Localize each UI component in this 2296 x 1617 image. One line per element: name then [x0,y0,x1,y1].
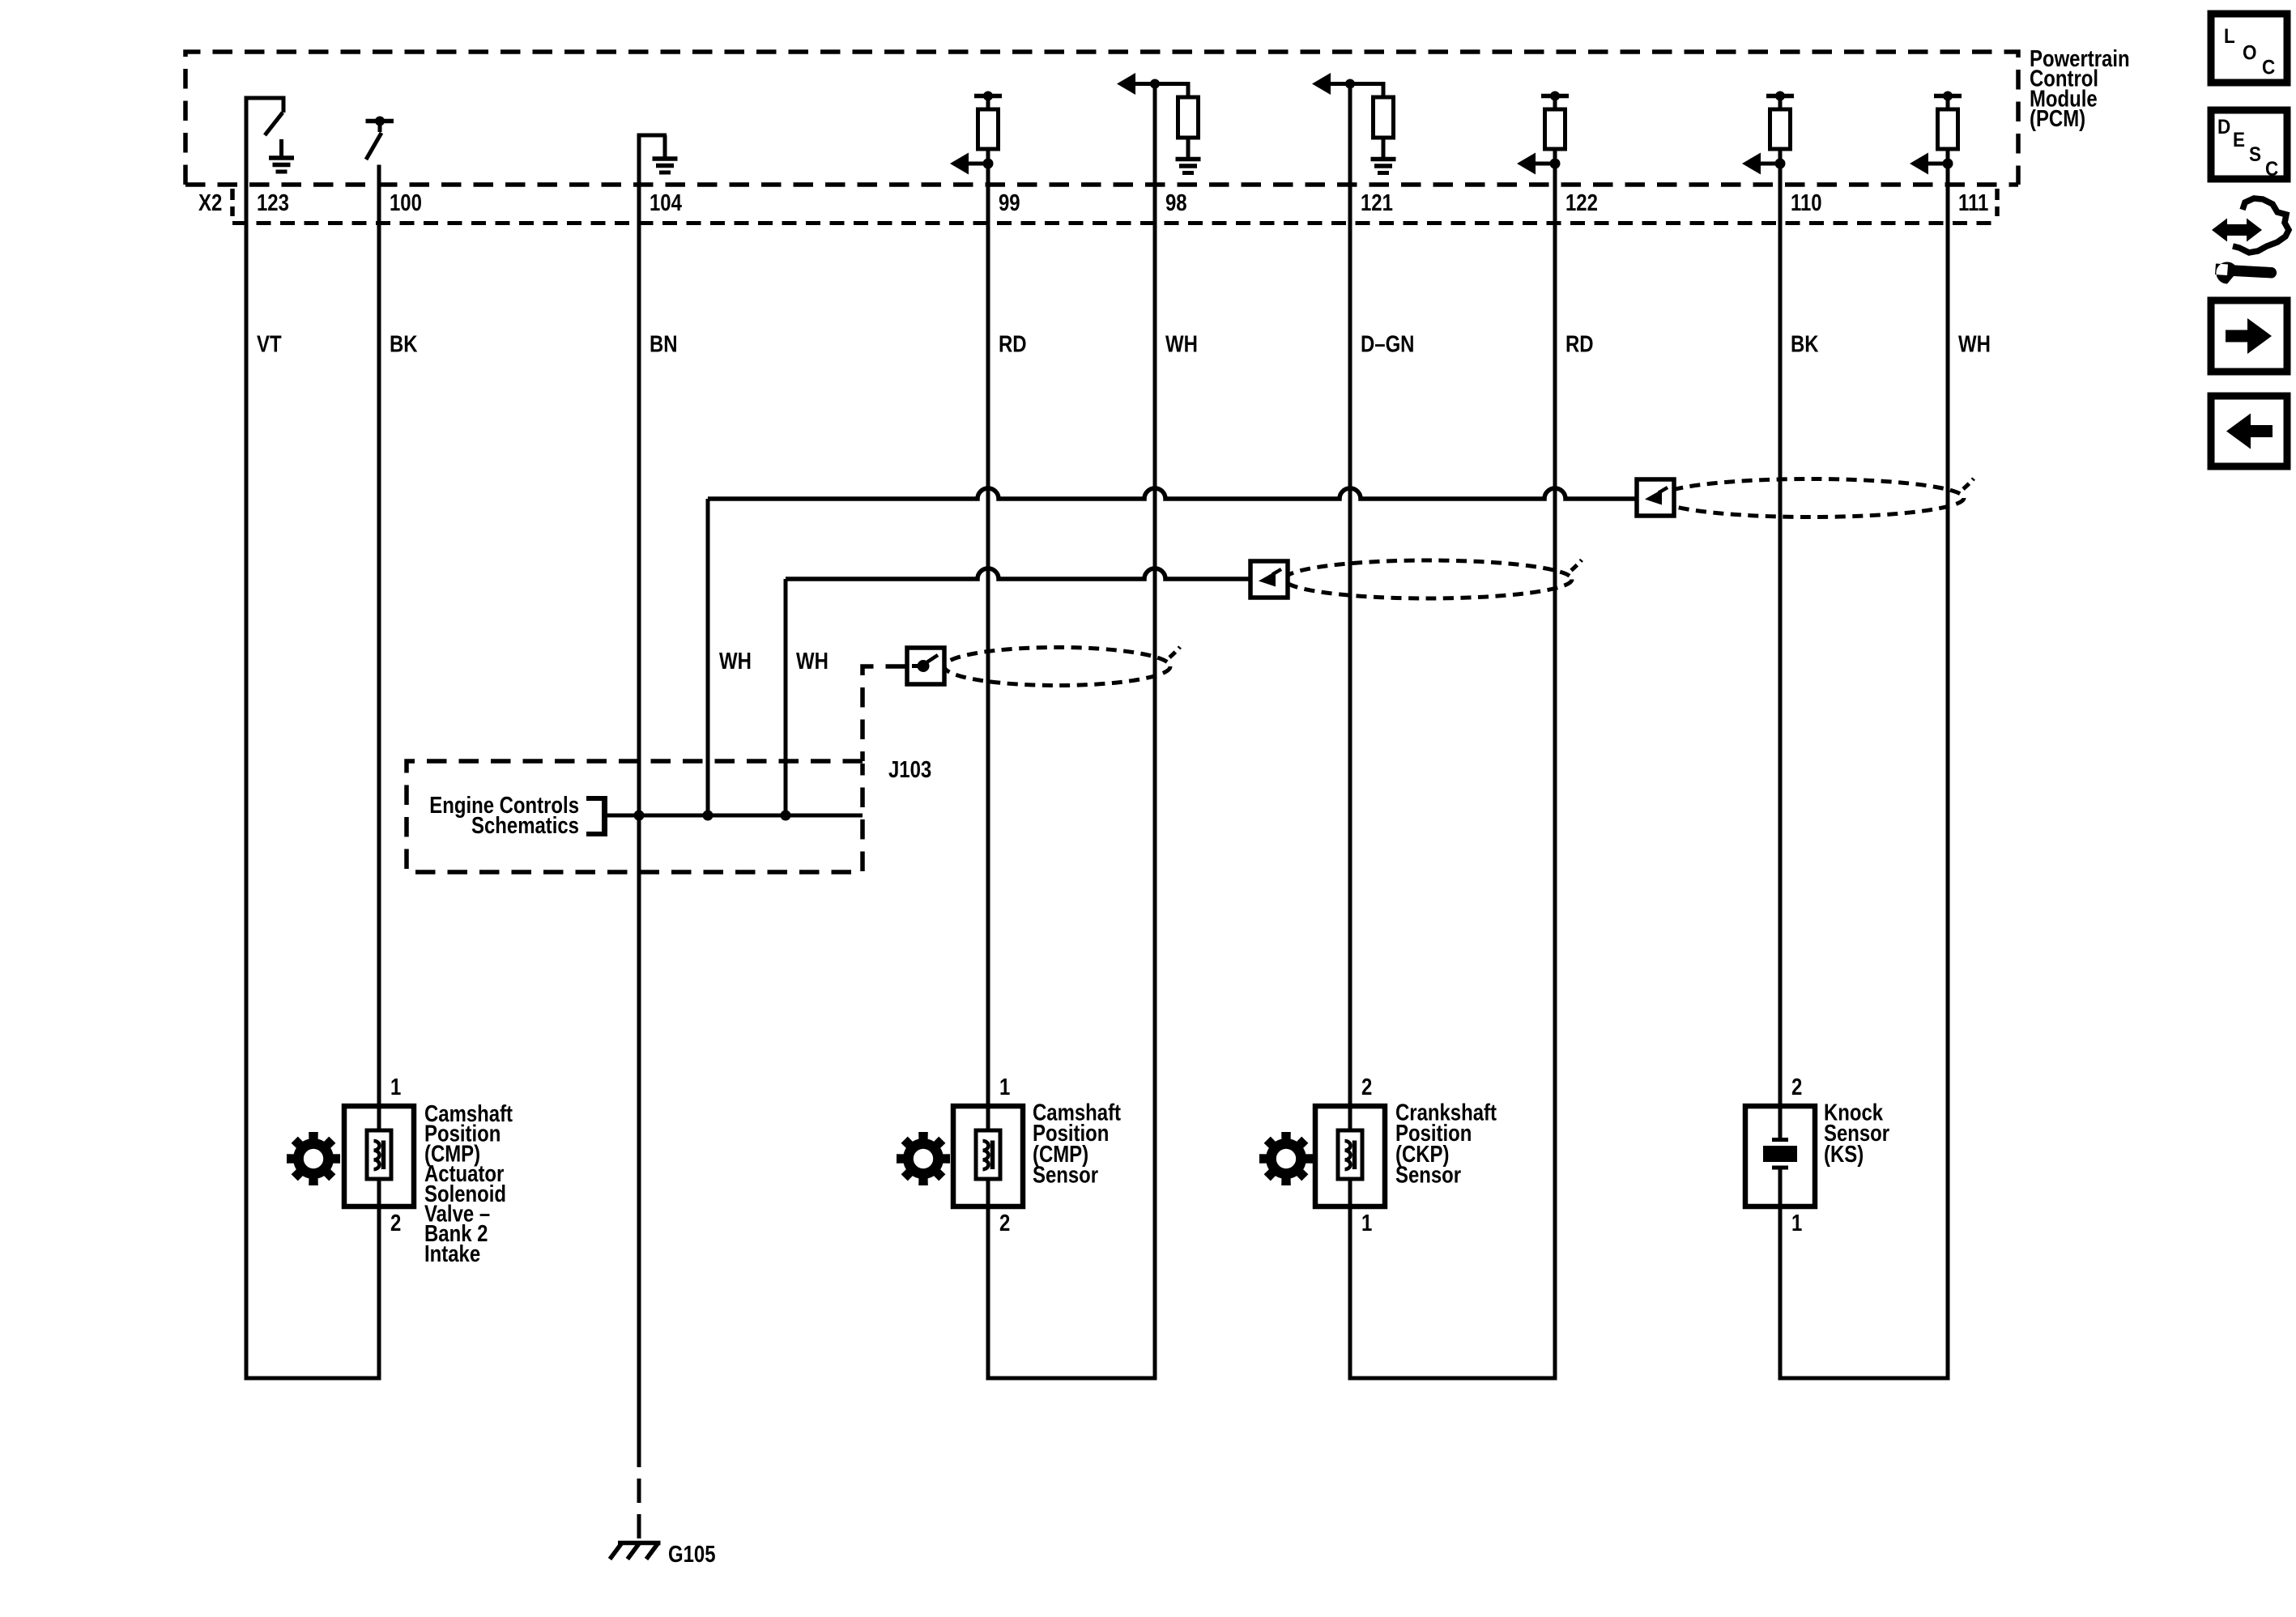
svg-text:121: 121 [1361,189,1393,215]
svg-text:1: 1 [1361,1210,1372,1236]
svg-text:X2: X2 [198,189,222,215]
svg-text:(KS): (KS) [1824,1141,1864,1167]
svg-text:Schematics: Schematics [471,812,579,838]
svg-text:99: 99 [999,189,1020,215]
svg-text:WH: WH [719,648,752,674]
svg-text:(PCM): (PCM) [2030,105,2085,131]
svg-text:104: 104 [650,189,682,215]
svg-text:Sensor: Sensor [1395,1162,1461,1188]
svg-text:VT: VT [257,331,282,357]
svg-text:Intake: Intake [424,1240,480,1266]
svg-text:2: 2 [1791,1074,1802,1100]
svg-text:BK: BK [390,331,418,357]
svg-text:E: E [2233,129,2245,151]
svg-text:C: C [2265,158,2278,181]
svg-text:BK: BK [1791,331,1819,357]
svg-text:J103: J103 [888,756,931,782]
svg-text:111: 111 [1958,189,1988,215]
svg-text:Sensor: Sensor [1033,1162,1098,1188]
svg-text:2: 2 [999,1210,1010,1236]
svg-text:S: S [2249,143,2261,166]
svg-text:G105: G105 [668,1541,716,1567]
svg-text:98: 98 [1165,189,1187,215]
svg-text:RD: RD [1565,331,1594,357]
svg-text:100: 100 [390,189,422,215]
svg-text:123: 123 [257,189,289,215]
svg-text:1: 1 [1791,1210,1802,1236]
svg-text:1: 1 [999,1074,1010,1100]
svg-text:O: O [2243,41,2257,64]
svg-text:2: 2 [390,1210,401,1236]
svg-text:RD: RD [999,331,1027,357]
svg-text:110: 110 [1791,189,1822,215]
svg-text:WH: WH [1165,331,1198,357]
svg-text:D: D [2217,116,2230,138]
svg-text:D–GN: D–GN [1361,331,1414,357]
svg-text:122: 122 [1565,189,1598,215]
svg-text:1: 1 [390,1074,401,1100]
svg-text:2: 2 [1361,1074,1372,1100]
svg-text:BN: BN [650,331,678,357]
svg-text:WH: WH [1958,331,1991,357]
svg-text:WH: WH [796,648,829,674]
svg-text:L: L [2224,25,2235,48]
svg-text:C: C [2262,56,2275,79]
